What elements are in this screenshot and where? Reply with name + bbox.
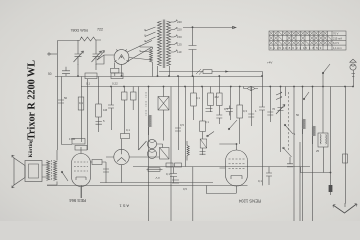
capacitor C16	[206, 109, 213, 112]
svg-text:0,1: 0,1	[205, 120, 209, 124]
svg-text:780Ω WSα: 780Ω WSα	[71, 29, 89, 33]
tube V4 RENS1204	[220, 144, 248, 193]
switch S3	[208, 132, 215, 137]
parts table frame	[269, 31, 346, 50]
node dot rectifier	[192, 75, 194, 77]
resistor R8	[200, 121, 206, 132]
wire V1 to transformer top	[127, 41, 152, 53]
wire left spine	[57, 41, 59, 151]
resistor R2	[78, 97, 84, 110]
coil L11	[303, 87, 306, 240]
wire det to box	[138, 144, 163, 157]
resistor R1 (series antenna)	[80, 37, 101, 41]
wire bottom rail	[47, 185, 248, 187]
center vertical x219.3	[219, 77, 221, 116]
capacitor C10	[103, 169, 109, 172]
mid vertical x163	[163, 87, 165, 141]
svg-text:110: 110	[177, 50, 182, 54]
coil L5	[171, 87, 174, 240]
svg-text:Körting: Körting	[28, 139, 34, 158]
coil L14	[313, 126, 316, 144]
mains selector taps left	[145, 27, 156, 42]
node dot A	[77, 75, 79, 77]
svg-text:125: 125	[177, 43, 182, 47]
shield dashed line	[288, 92, 290, 150]
capacitor C13	[172, 180, 179, 183]
switch marks near fuse	[196, 69, 204, 75]
svg-text:150: 150	[177, 35, 182, 39]
transformer T1 core	[163, 20, 165, 69]
svg-text:RENS 1204: RENS 1204	[238, 199, 261, 204]
jack bowtie	[247, 86, 255, 90]
transformer T1 primary winding	[158, 21, 162, 66]
wire V1 cathode down	[121, 66, 123, 76]
svg-text:0,22: 0,22	[112, 82, 118, 86]
resistor R4 on rail	[85, 73, 97, 79]
resistor R5 on rail	[111, 73, 123, 79]
capacitor C12	[266, 167, 272, 185]
svg-text:RES 964: RES 964	[69, 198, 86, 203]
center vertical x202	[202, 87, 204, 156]
transformer T1 secondary winding	[167, 21, 171, 66]
center vertical x251	[251, 87, 253, 127]
resistor R3	[72, 139, 85, 145]
arrow fuse	[225, 70, 228, 72]
svg-text:1M: 1M	[103, 108, 108, 112]
svg-text:0,1: 0,1	[79, 101, 83, 105]
capacitor C14	[287, 157, 293, 167]
wires speaker loop	[42, 150, 57, 185]
capacitor C4	[189, 46, 197, 50]
svg-text:50: 50	[48, 72, 52, 76]
tube V1 REN904	[114, 49, 129, 66]
resistor R13 right of V2	[92, 160, 102, 165]
right vertical 3	[280, 87, 282, 153]
center vertical x230.8	[230, 87, 232, 121]
svg-text:0,1: 0,1	[86, 82, 91, 86]
X-box B1	[158, 97, 169, 111]
svg-text:50: 50	[64, 96, 68, 100]
IF coil L2	[149, 115, 152, 135]
fuse F1	[203, 70, 212, 74]
svg-text:0,1: 0,1	[166, 172, 170, 176]
wire rail B	[81, 86, 354, 88]
resistor boxes pair	[166, 163, 173, 167]
resistor R12 above V2	[75, 146, 87, 151]
resistor R15	[147, 169, 163, 171]
mid vertical x178	[178, 77, 180, 151]
left band vertical x61	[61, 77, 63, 111]
wire AF grid	[105, 182, 107, 184]
table X marks row1	[270, 32, 328, 35]
capacitor C7	[175, 128, 181, 131]
wire V4 bottom	[207, 186, 237, 194]
node dots transformer	[157, 75, 159, 77]
resistor R6	[96, 104, 102, 117]
center vertical x239.7	[239, 87, 241, 145]
resistor R9	[208, 93, 214, 106]
switch S4	[229, 120, 237, 129]
svg-text:0,1: 0,1	[126, 128, 130, 132]
IF core dashes	[145, 92, 147, 116]
right vertical 4	[285, 87, 287, 97]
capacitor C20	[259, 107, 265, 110]
right section vertical 1	[262, 72, 264, 186]
switch S6	[304, 92, 309, 99]
svg-text:0,1: 0,1	[196, 96, 200, 100]
center vertical x210.5	[210, 87, 212, 113]
switch S7	[323, 64, 330, 73]
capacitor C17	[226, 106, 233, 116]
tap arrows T1 right	[171, 20, 178, 52]
heater diagonal 2	[127, 47, 152, 62]
small rect right	[343, 154, 348, 163]
resistor R18	[131, 92, 137, 100]
svg-text:0,5: 0,5	[183, 187, 187, 191]
T2 core	[51, 160, 53, 181]
svg-text:Trixor R 2200 WL: Trixor R 2200 WL	[26, 60, 38, 140]
wire trimmer to rail	[78, 64, 96, 76]
wire rectifier drop	[192, 28, 194, 77]
wire switch stubs	[322, 73, 324, 87]
wire transformer bottoms	[153, 66, 170, 77]
loudspeaker cone	[12, 155, 25, 188]
capacitor C18	[96, 122, 102, 125]
svg-text:70: 70	[272, 107, 276, 111]
wire antenna top	[58, 40, 81, 42]
svg-text:240: 240	[177, 20, 182, 24]
antenna terminal	[50, 53, 57, 55]
capacitor C19	[200, 152, 206, 155]
right vertical 5	[322, 87, 324, 134]
fuse line with arrow	[159, 71, 263, 73]
coil L10	[294, 87, 297, 240]
trimmer capacitor C3	[92, 40, 102, 65]
coil box L15	[318, 133, 328, 147]
capacitor C5	[58, 100, 64, 103]
X-box B2	[160, 148, 170, 160]
resistor R19 zigzag	[187, 141, 189, 161]
svg-text:1700: 1700	[69, 137, 76, 141]
electrolytic C24	[329, 185, 333, 192]
transformer T1 aux winding	[150, 49, 153, 62]
resistor R10	[217, 93, 223, 106]
resistor R17 below V1	[114, 63, 116, 77]
ground symbol	[333, 204, 357, 213]
resistor R16	[122, 92, 128, 100]
svg-text:+4V: +4V	[267, 61, 272, 65]
trimmer C22	[276, 105, 285, 115]
wire HT rail A	[55, 76, 263, 78]
wire bottom rail 2	[133, 166, 310, 168]
svg-text:4 V: 4 V	[155, 176, 160, 180]
node dot V1	[121, 75, 123, 77]
pilot lamp LP1	[350, 59, 356, 86]
svg-text:1,1 A m: 1,1 A m	[333, 46, 342, 50]
coil L4 small	[300, 142, 303, 240]
capacitor C8	[216, 115, 222, 124]
potentiometer arrow P1	[97, 51, 105, 61]
svg-text:0,1 25 10 8 6 3 2 15 1 8 5,3: 0,1 25 10 8 6 3 2 15 1 8 5,3	[270, 46, 322, 50]
mid vertical x111	[111, 87, 113, 131]
svg-text:0,3: 0,3	[243, 109, 247, 113]
svg-text:722: 722	[97, 28, 103, 32]
coil L12	[303, 119, 306, 134]
switch S2	[284, 148, 292, 157]
svg-text:A S 1: A S 1	[119, 204, 129, 209]
capacitor C6	[108, 105, 114, 108]
left band vertical x98.5	[98, 77, 100, 133]
wire AF ground bus	[100, 182, 213, 184]
center vertical x193.5	[193, 76, 195, 120]
tube V2 RES964	[72, 147, 91, 198]
svg-text:50: 50	[296, 113, 300, 117]
svg-text:6,3 V: 6,3 V	[333, 41, 339, 45]
svg-text:0,1: 0,1	[258, 179, 262, 183]
node dot V4 top	[236, 143, 238, 145]
arrows pair	[276, 92, 282, 100]
node dot HT feed	[192, 26, 194, 28]
right vertical 2	[270, 87, 272, 123]
resistor R14 above V3	[121, 134, 130, 139]
chevron arrow ticks	[333, 204, 357, 208]
wire V4 anode	[219, 143, 236, 145]
center vertical x185	[185, 87, 187, 167]
wire right bottom hookups	[301, 87, 346, 204]
wire V1 grid left	[97, 55, 114, 60]
wire osc link	[96, 55, 104, 64]
wire HT feed arrow	[183, 26, 236, 28]
IF transformer circles	[147, 139, 156, 158]
resistor R11	[237, 105, 243, 118]
wire V1 anode right	[129, 58, 152, 61]
wire V2 right	[91, 162, 107, 183]
speaker field box	[25, 161, 42, 182]
svg-text:0,5: 0,5	[180, 123, 184, 127]
X-box B3	[200, 139, 207, 148]
svg-text:0,1: 0,1	[224, 107, 228, 111]
svg-text:25: 25	[316, 149, 320, 153]
svg-text:215 mA: 215 mA	[333, 36, 342, 40]
mid vertical x138	[139, 87, 147, 151]
coil L3	[193, 167, 196, 240]
misc tiny labels	[64, 96, 320, 191]
node dots right	[344, 86, 346, 88]
tube V3 detector	[106, 139, 138, 183]
wire x61 extension	[62, 110, 73, 145]
svg-text:2M: 2M	[215, 95, 220, 99]
table X marks row2	[270, 36, 332, 40]
wire mains left	[140, 46, 153, 67]
node dots rails	[110, 75, 324, 87]
node lamp	[352, 86, 354, 88]
capacitor C9	[248, 114, 254, 117]
capacitor C1 50pF	[62, 67, 70, 76]
switch S1	[285, 125, 295, 135]
trimmer capacitor C2	[74, 40, 84, 65]
switch S5	[62, 172, 68, 181]
table X marks row3	[270, 41, 332, 45]
IF coil L1	[149, 87, 152, 240]
output transformer T2 secondary	[54, 161, 57, 181]
left band vertical x87.6	[87, 79, 89, 150]
resistor R7	[191, 93, 197, 106]
coil L13 tall	[313, 87, 316, 240]
svg-text:220: 220	[177, 28, 182, 32]
capacitor C21	[267, 112, 273, 115]
capacitor C11	[170, 167, 177, 183]
mid vertical x124	[124, 87, 126, 134]
left band vertical x81	[81, 77, 83, 199]
svg-text:70 V: 70 V	[333, 32, 339, 36]
wire ground stub	[344, 203, 346, 207]
output transformer T2 primary	[47, 161, 50, 181]
